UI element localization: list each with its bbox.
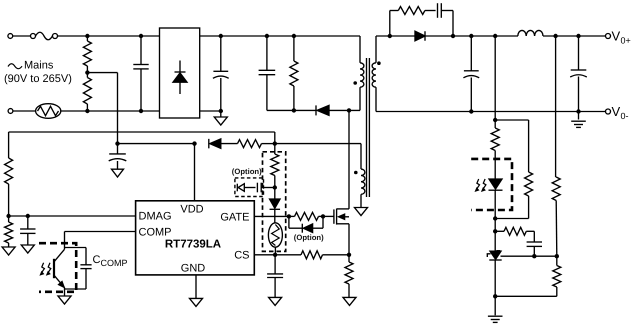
thermistor RT1 (inrush limiter) xyxy=(36,104,61,119)
label DMAG xyxy=(139,211,172,223)
label CS xyxy=(234,250,249,262)
option box (gate RC) dashed xyxy=(235,178,264,197)
node ref divider mid xyxy=(555,254,559,258)
resistor R8 (divider upper) xyxy=(552,177,560,256)
wire d4-c9 xyxy=(244,187,255,189)
fuse F1 xyxy=(31,32,88,40)
option box (startup) dashed xyxy=(263,152,286,252)
ground (primary) opto emitter xyxy=(58,296,71,304)
transistor Q1 (MOSFET) xyxy=(334,209,349,225)
wire output rail xyxy=(425,35,518,37)
svg-text:GATE: GATE xyxy=(220,212,249,224)
optocoupler box (transistor) xyxy=(39,243,76,292)
wire bridge bottom to ground node xyxy=(200,110,221,112)
label V0- xyxy=(612,104,629,121)
node sec snubber right xyxy=(451,34,455,38)
ground (secondary) TL431 xyxy=(488,296,503,322)
resistor R1 (divider upper) xyxy=(83,36,91,73)
svg-text:0+: 0+ xyxy=(621,36,631,46)
transformer T1 primary winding xyxy=(360,36,364,110)
optocoupler LED box xyxy=(471,159,512,210)
terminal V0- xyxy=(606,109,611,114)
pin GND lead xyxy=(195,275,197,299)
resistor R14 (gate) xyxy=(289,212,323,220)
optocoupler LED photon arrows xyxy=(475,179,486,191)
wire TL431 ref xyxy=(501,255,557,257)
wire bottom rail: thermistor to bridge xyxy=(61,110,160,112)
capacitor C6 (comp) xyxy=(527,242,542,256)
svg-text:COMP: COMP xyxy=(101,258,128,268)
ground (primary) aux winding xyxy=(355,208,368,216)
wire divider mid to vertical xyxy=(87,73,117,144)
node output cap2 bottom xyxy=(576,109,580,113)
label GATE xyxy=(220,212,249,224)
diode D6 (option gate) xyxy=(302,224,312,233)
node VDD sense junction xyxy=(115,141,119,145)
node DMAG cap xyxy=(26,214,30,218)
inductor L1 (output filter) xyxy=(518,30,543,36)
capacitor C3 (sec snubber) xyxy=(438,3,454,36)
wire opto to TL431 xyxy=(494,219,496,251)
wire clamp diode to primary xyxy=(329,109,360,111)
ground (primary) at bridge xyxy=(214,111,227,125)
wire aux row to winding xyxy=(275,143,361,145)
svg-text:(Option): (Option) xyxy=(232,167,262,176)
node DMAG left xyxy=(6,214,10,218)
node TL431 anode bottom xyxy=(493,294,497,298)
op-amp U1 RT7739LA (controller) xyxy=(136,201,255,275)
capacitor C9 (option) xyxy=(257,183,274,193)
node snubber res top xyxy=(292,34,296,38)
node output cap1 bottom xyxy=(469,109,473,113)
wire DC bus top: bridge to transformer xyxy=(200,35,360,37)
capacitor C11 Ccomp bracket xyxy=(65,248,92,290)
bridge rectifier BD1 xyxy=(160,28,200,118)
option diode branch xyxy=(289,216,302,228)
AC input terminal bottom (N) xyxy=(8,109,36,114)
node X-cap bottom xyxy=(139,109,143,113)
optocoupler PC1 phototransistor xyxy=(54,249,65,296)
node sec snubber left xyxy=(388,34,392,38)
wire DMAG sense row left xyxy=(118,143,195,145)
transformer core xyxy=(367,58,370,197)
capacitor C7 (DMAG filter) xyxy=(20,216,35,245)
node startup chain top xyxy=(273,141,277,145)
svg-text:C: C xyxy=(93,254,101,266)
wire feedback tap down xyxy=(494,36,496,120)
resistor R13 (startup) xyxy=(271,144,279,188)
capacitor C1 (bulk) xyxy=(213,36,229,111)
resistor R16 (sense) xyxy=(345,255,353,298)
surge resistor RV1 (startup) xyxy=(268,223,282,255)
wire COMP pin xyxy=(65,232,136,250)
wire divider top xyxy=(555,36,557,177)
label VDD xyxy=(180,204,203,216)
ground (primary) DMAG cap xyxy=(21,245,34,253)
diode D2 (output rectifier) xyxy=(415,31,425,41)
label (90V to 265V) xyxy=(4,73,72,85)
resistor R7 (comp) xyxy=(495,227,534,242)
node output cap1 top xyxy=(469,34,473,38)
ground (primary) sense res xyxy=(343,297,356,305)
resistor R10 (DMAG upper) xyxy=(5,158,13,216)
node CS chain bottom xyxy=(273,253,277,257)
node clamp res bottom xyxy=(292,108,296,112)
label GND xyxy=(181,263,206,275)
wire source xyxy=(348,224,350,255)
wire VDD row xyxy=(9,132,275,144)
transformer T1 secondary winding xyxy=(372,36,376,112)
optocoupler PC1 LED xyxy=(489,179,503,219)
resistor R6 (opto bias) xyxy=(491,120,499,179)
resistor R5 (parallel opto) xyxy=(495,172,532,219)
capacitor C2 (clamp) xyxy=(259,36,276,110)
pin VDD lead xyxy=(194,144,196,201)
node snubber cap top xyxy=(265,34,269,38)
wire DMAG row xyxy=(9,215,136,217)
wire clamp bottom xyxy=(267,109,316,111)
capacitor CX1 xyxy=(133,36,148,111)
node output cap2 top xyxy=(576,34,580,38)
capacitor C10 (CS filter) xyxy=(267,255,283,298)
wire inductor to terminal xyxy=(543,35,606,37)
svg-text:0-: 0- xyxy=(621,111,629,121)
wire d3 to r12 xyxy=(221,143,238,145)
svg-text:GND: GND xyxy=(181,263,206,275)
node feedback tap xyxy=(493,34,497,38)
wire GATE pin xyxy=(254,215,289,217)
node gate res right xyxy=(321,214,325,218)
node X-cap top xyxy=(139,34,143,38)
node output v0+ divider tap xyxy=(553,34,557,38)
node divider midpoint xyxy=(85,70,89,74)
resistor R15 (CS) xyxy=(301,251,349,259)
label Ccomp xyxy=(93,254,128,268)
diode D4 (option) xyxy=(237,184,244,192)
resistor R9 (divider lower) xyxy=(495,256,561,296)
wire top rail: fuse to bridge xyxy=(87,35,159,37)
diode D1 (clamp) xyxy=(316,105,329,115)
node comp RC tap xyxy=(493,229,497,233)
terminal V0+ xyxy=(606,34,611,39)
capacitor C5 (output) xyxy=(570,36,587,112)
transformer T1 auxiliary winding xyxy=(361,144,365,208)
node drain junction xyxy=(347,108,351,112)
ground (primary) CS cap xyxy=(269,297,282,305)
svg-text:VDD: VDD xyxy=(180,204,203,216)
wire d6 up xyxy=(313,216,323,228)
svg-text:CS: CS xyxy=(234,250,249,262)
resistor R4 (sec snubber) xyxy=(390,7,436,37)
wire secondary to output diode xyxy=(376,35,415,37)
node VDD pin junction xyxy=(192,141,196,145)
wire drain xyxy=(348,110,350,208)
node top rail / divider R1 xyxy=(85,34,89,38)
wire parallel R top xyxy=(495,120,528,172)
label ~ Mains xyxy=(8,60,54,72)
node comp cap bottom xyxy=(532,254,536,258)
svg-text:COMP: COMP xyxy=(139,227,172,239)
node source/sense xyxy=(347,253,351,257)
label (Option) upper xyxy=(232,167,262,176)
diode D3 (aux rect) xyxy=(209,139,221,149)
shunt regulator U2 (TL431) xyxy=(487,251,501,297)
transformer secondary polarity dot xyxy=(377,61,381,65)
ground (primary) IC GND xyxy=(190,298,203,306)
svg-text:RT7739LA: RT7739LA xyxy=(165,239,221,251)
svg-text:(Option): (Option) xyxy=(294,233,324,242)
diode D5 (startup) xyxy=(270,188,281,223)
transformer aux polarity dot xyxy=(354,171,358,175)
resistor R11 (DMAG lower) xyxy=(5,216,13,247)
wire gate to mosfet xyxy=(323,215,334,217)
AC input terminal top (L) xyxy=(8,34,31,39)
node gate res left xyxy=(287,214,291,218)
resistor R3 (clamp) xyxy=(290,36,298,110)
optocoupler photon arrows xyxy=(40,263,51,275)
ground (secondary) output xyxy=(571,112,586,128)
transformer primary polarity dot xyxy=(353,81,357,85)
label V0+ xyxy=(612,29,631,46)
label RT7739LA xyxy=(165,239,221,251)
node option RC tap xyxy=(273,185,277,189)
ground (primary) DMAG divider xyxy=(2,247,15,255)
svg-text:Mains: Mains xyxy=(24,60,54,72)
node opto led bottom xyxy=(493,216,497,220)
svg-text:V: V xyxy=(612,29,621,44)
svg-text:(90V to 265V): (90V to 265V) xyxy=(4,73,72,85)
resistor R12 (aux) xyxy=(238,140,275,148)
node primary ground xyxy=(219,109,223,113)
ground (primary) divider cap xyxy=(112,169,124,177)
resistor R2 (divider lower) xyxy=(83,73,91,111)
node divider bottom xyxy=(85,109,89,113)
svg-text:V: V xyxy=(612,104,621,119)
wire V0- rail xyxy=(376,111,606,113)
svg-text:DMAG: DMAG xyxy=(139,211,172,223)
capacitor C4 (output bulk) xyxy=(463,36,479,112)
wire left chain top xyxy=(8,132,10,158)
wire CS pin xyxy=(254,254,301,256)
node bulk cap top xyxy=(219,34,223,38)
capacitor C8 (startup divider) xyxy=(109,144,127,170)
node opto bias top xyxy=(493,118,497,122)
label (Option) lower xyxy=(294,233,324,242)
label COMP xyxy=(139,227,172,239)
